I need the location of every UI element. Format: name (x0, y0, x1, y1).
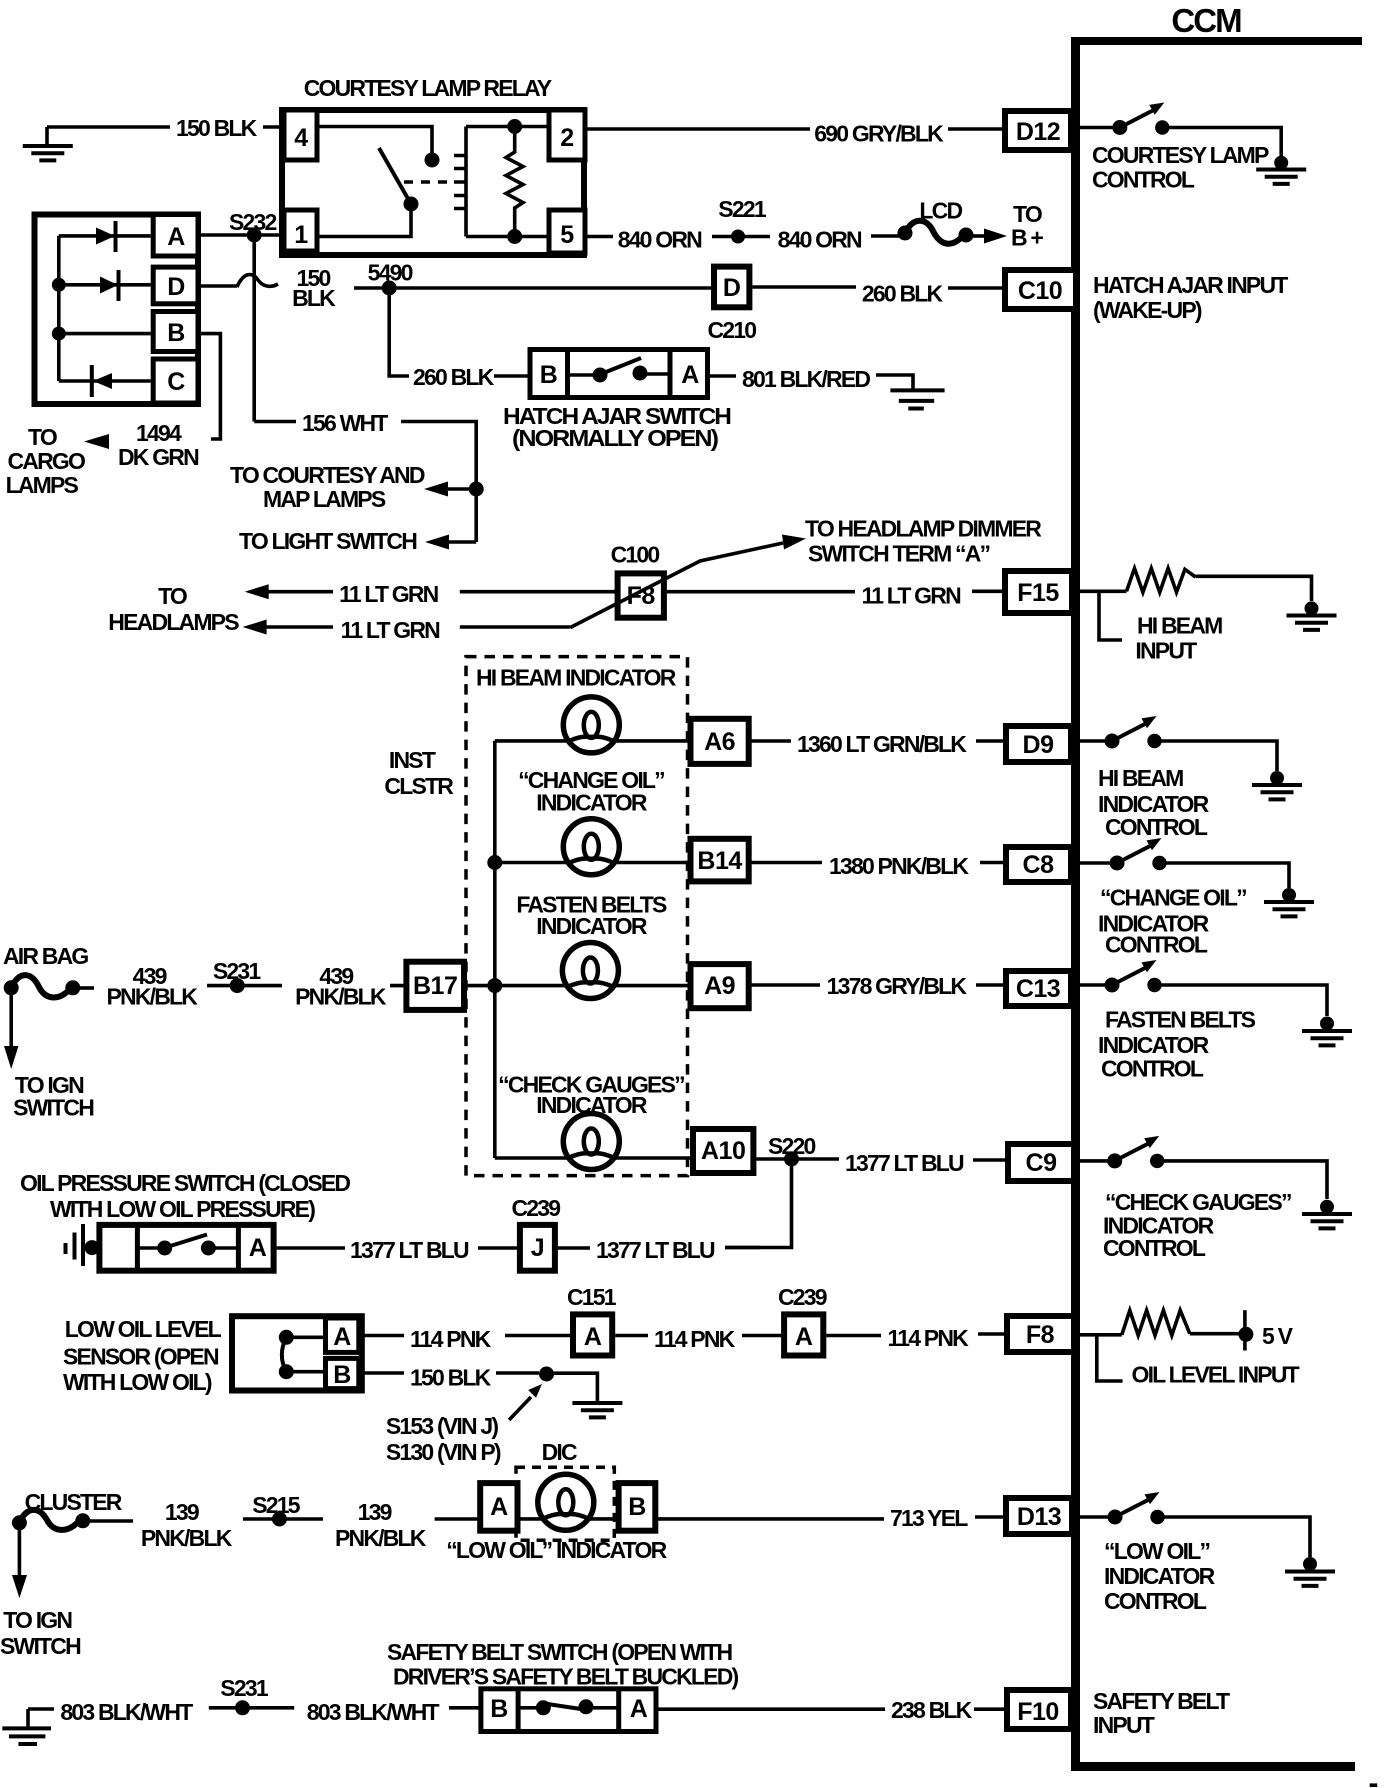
svg-text:INDICATOR: INDICATOR (1104, 1563, 1216, 1589)
svg-text:A: A (333, 1323, 351, 1351)
svg-text:CARGO: CARGO (8, 448, 86, 474)
svg-text:C239: C239 (778, 1284, 827, 1310)
svg-text:1377 LT BLU: 1377 LT BLU (845, 1150, 964, 1176)
svg-text:B14: B14 (697, 847, 742, 875)
svg-text:238 BLK: 238 BLK (891, 1697, 973, 1723)
svg-text:139: 139 (165, 1499, 199, 1525)
svg-text:713 YEL: 713 YEL (890, 1505, 968, 1531)
svg-text:A: A (490, 1493, 508, 1521)
svg-text:C10: C10 (1018, 277, 1062, 305)
svg-text:DRIVER’S SAFETY BELT BUCKLED): DRIVER’S SAFETY BELT BUCKLED) (393, 1664, 739, 1690)
svg-text:HATCH AJAR INPUT: HATCH AJAR INPUT (1093, 272, 1288, 298)
svg-text:150 BLK: 150 BLK (410, 1365, 492, 1391)
svg-text:C8: C8 (1023, 851, 1055, 879)
svg-text:D: D (723, 274, 741, 302)
svg-text:1: 1 (294, 221, 308, 249)
svg-text:114 PNK: 114 PNK (888, 1325, 970, 1351)
svg-text:S153 (VIN J): S153 (VIN J) (386, 1413, 498, 1439)
svg-text:BLK: BLK (292, 285, 336, 311)
svg-text:OIL LEVEL INPUT: OIL LEVEL INPUT (1132, 1362, 1300, 1388)
svg-text:A: A (795, 1323, 813, 1351)
svg-text:1380 PNK/BLK: 1380 PNK/BLK (829, 853, 969, 879)
svg-text:803 BLK/WHT: 803 BLK/WHT (60, 1699, 193, 1725)
svg-text:PNK/BLK: PNK/BLK (295, 984, 387, 1010)
svg-text:SWITCH TERM “A”: SWITCH TERM “A” (808, 541, 990, 567)
svg-text:SWITCH: SWITCH (13, 1095, 94, 1121)
svg-text:150 BLK: 150 BLK (176, 115, 258, 141)
svg-text:B: B (540, 361, 558, 389)
svg-text:11 LT GRN: 11 LT GRN (341, 617, 441, 643)
svg-text:801 BLK/RED: 801 BLK/RED (742, 366, 870, 392)
svg-text:INDICATOR: INDICATOR (1098, 1032, 1210, 1058)
svg-text:PNK/BLK: PNK/BLK (335, 1525, 427, 1551)
svg-text:B: B (628, 1493, 646, 1521)
svg-text:B17: B17 (413, 972, 457, 1000)
svg-text:C210: C210 (708, 317, 757, 343)
svg-text:LAMPS: LAMPS (6, 472, 79, 498)
svg-text:C9: C9 (1026, 1149, 1057, 1177)
svg-text:OIL PRESSURE SWITCH (CLOSED: OIL PRESSURE SWITCH (CLOSED (20, 1170, 350, 1196)
svg-text:INDICATOR: INDICATOR (536, 790, 648, 816)
svg-text:5: 5 (560, 221, 574, 249)
svg-text:“CHECK GAUGES”: “CHECK GAUGES” (1105, 1189, 1291, 1215)
svg-text:F8: F8 (1026, 1321, 1055, 1349)
svg-text:“LOW OIL”: “LOW OIL” (1104, 1538, 1209, 1564)
svg-text:COURTESY LAMP: COURTESY LAMP (1092, 142, 1269, 168)
svg-text:CONTROL: CONTROL (1101, 1055, 1204, 1081)
svg-text:114 PNK: 114 PNK (410, 1326, 492, 1352)
svg-text:HI BEAM INDICATOR: HI BEAM INDICATOR (476, 664, 677, 690)
svg-text:F10: F10 (1017, 1698, 1059, 1726)
svg-text:TO IGN: TO IGN (3, 1607, 72, 1633)
svg-text:C151: C151 (567, 1284, 617, 1310)
svg-text:A10: A10 (701, 1137, 745, 1165)
svg-text:LOW OIL LEVEL: LOW OIL LEVEL (65, 1316, 222, 1342)
svg-text:INST: INST (389, 747, 436, 773)
svg-text:CONTROL: CONTROL (1092, 167, 1195, 193)
svg-text:B +: B + (1011, 225, 1043, 251)
svg-text:D9: D9 (1023, 731, 1054, 759)
svg-text:690 GRY/BLK: 690 GRY/BLK (814, 121, 944, 147)
svg-text:S130 (VIN P): S130 (VIN P) (386, 1439, 501, 1465)
svg-text:HI BEAM: HI BEAM (1098, 765, 1183, 791)
svg-text:840 ORN: 840 ORN (778, 227, 862, 253)
svg-text:CCM: CCM (1171, 2, 1241, 39)
svg-text:1377 LT BLU: 1377 LT BLU (596, 1237, 715, 1263)
svg-text:DK GRN: DK GRN (118, 444, 199, 470)
svg-text:C239: C239 (512, 1195, 561, 1221)
svg-text:PNK/BLK: PNK/BLK (107, 984, 199, 1010)
svg-text:D: D (167, 273, 185, 301)
svg-text:TO: TO (158, 583, 187, 609)
svg-text:CONTROL: CONTROL (1103, 1235, 1206, 1261)
svg-text:DIC: DIC (542, 1439, 577, 1465)
svg-text:S231: S231 (220, 1675, 269, 1701)
svg-text:SAFETY BELT: SAFETY BELT (1093, 1688, 1230, 1714)
svg-text:B: B (333, 1361, 351, 1389)
svg-text:A: A (584, 1323, 602, 1351)
svg-text:SWITCH: SWITCH (0, 1633, 81, 1659)
svg-text:(WAKE-UP): (WAKE-UP) (1093, 297, 1202, 323)
svg-text:HEADLAMPS: HEADLAMPS (108, 609, 239, 635)
svg-text:A6: A6 (704, 728, 735, 756)
svg-text:FASTEN BELTS: FASTEN BELTS (1105, 1006, 1256, 1032)
svg-text:(NORMALLY OPEN): (NORMALLY OPEN) (512, 425, 718, 451)
svg-text:TO: TO (1013, 201, 1042, 227)
svg-text:PNK/BLK: PNK/BLK (141, 1525, 233, 1551)
svg-text:114 PNK: 114 PNK (654, 1326, 736, 1352)
svg-text:A: A (167, 223, 185, 251)
svg-text:803 BLK/WHT: 803 BLK/WHT (307, 1699, 440, 1725)
svg-text:D12: D12 (1016, 118, 1060, 146)
svg-text:A9: A9 (704, 972, 735, 1000)
svg-text:A: A (681, 361, 699, 389)
svg-text:C100: C100 (611, 541, 660, 567)
svg-text:F15: F15 (1017, 579, 1059, 607)
svg-text:CONTROL: CONTROL (1105, 931, 1208, 957)
svg-text:260 BLK: 260 BLK (862, 280, 944, 306)
svg-text:A: A (630, 1695, 648, 1723)
svg-text:“CHANGE OIL”: “CHANGE OIL” (1100, 885, 1246, 911)
svg-text:4: 4 (294, 124, 308, 152)
svg-text:J: J (531, 1234, 544, 1262)
svg-text:INDICATOR: INDICATOR (1098, 791, 1210, 817)
svg-text:B: B (167, 319, 185, 347)
svg-text:C: C (167, 368, 185, 396)
svg-text:INPUT: INPUT (1093, 1712, 1155, 1738)
svg-text:TO HEADLAMP DIMMER: TO HEADLAMP DIMMER (805, 516, 1042, 542)
svg-text:INPUT: INPUT (1135, 638, 1197, 664)
svg-text:156 WHT: 156 WHT (302, 410, 388, 436)
svg-text:C13: C13 (1016, 975, 1060, 1003)
svg-text:139: 139 (358, 1499, 392, 1525)
svg-text:CONTROL: CONTROL (1104, 1588, 1207, 1614)
svg-text:“LOW OIL” INDICATOR: “LOW OIL” INDICATOR (446, 1537, 667, 1563)
svg-text:COURTESY LAMP RELAY: COURTESY LAMP RELAY (304, 75, 552, 101)
svg-text:S221: S221 (718, 196, 767, 222)
svg-text:HI BEAM: HI BEAM (1137, 613, 1222, 639)
svg-text:CONTROL: CONTROL (1105, 814, 1208, 840)
svg-text:260 BLK: 260 BLK (413, 364, 495, 390)
svg-text:TO LIGHT SWITCH: TO LIGHT SWITCH (239, 528, 417, 554)
svg-text:11 LT GRN: 11 LT GRN (339, 581, 439, 607)
svg-text:11 LT GRN: 11 LT GRN (862, 583, 962, 609)
svg-text:1377 LT BLU: 1377 LT BLU (350, 1237, 469, 1263)
svg-text:WITH LOW OIL PRESSURE): WITH LOW OIL PRESSURE) (50, 1196, 315, 1222)
svg-text:A: A (249, 1234, 267, 1262)
svg-text:WITH LOW OIL): WITH LOW OIL) (63, 1369, 212, 1395)
svg-text:5 V: 5 V (1262, 1323, 1294, 1349)
svg-text:840 ORN: 840 ORN (618, 227, 702, 253)
svg-text:AIR BAG: AIR BAG (3, 943, 88, 969)
svg-text:SENSOR (OPEN: SENSOR (OPEN (63, 1344, 219, 1370)
svg-text:TO COURTESY AND: TO COURTESY AND (230, 462, 425, 488)
svg-text:1360 LT GRN/BLK: 1360 LT GRN/BLK (797, 731, 967, 757)
svg-text:F8: F8 (627, 582, 656, 610)
svg-text:D13: D13 (1017, 1503, 1061, 1531)
svg-text:CLSTR: CLSTR (384, 773, 454, 799)
svg-text:2: 2 (560, 124, 573, 152)
svg-text:MAP LAMPS: MAP LAMPS (263, 486, 386, 512)
svg-text:SAFETY BELT SWITCH (OPEN WITH: SAFETY BELT SWITCH (OPEN WITH (387, 1639, 733, 1665)
svg-text:1378 GRY/BLK: 1378 GRY/BLK (827, 973, 968, 999)
svg-text:TO: TO (28, 424, 57, 450)
svg-text:INDICATOR: INDICATOR (536, 913, 648, 939)
svg-text:B: B (490, 1695, 508, 1723)
svg-text:1494: 1494 (136, 420, 182, 446)
